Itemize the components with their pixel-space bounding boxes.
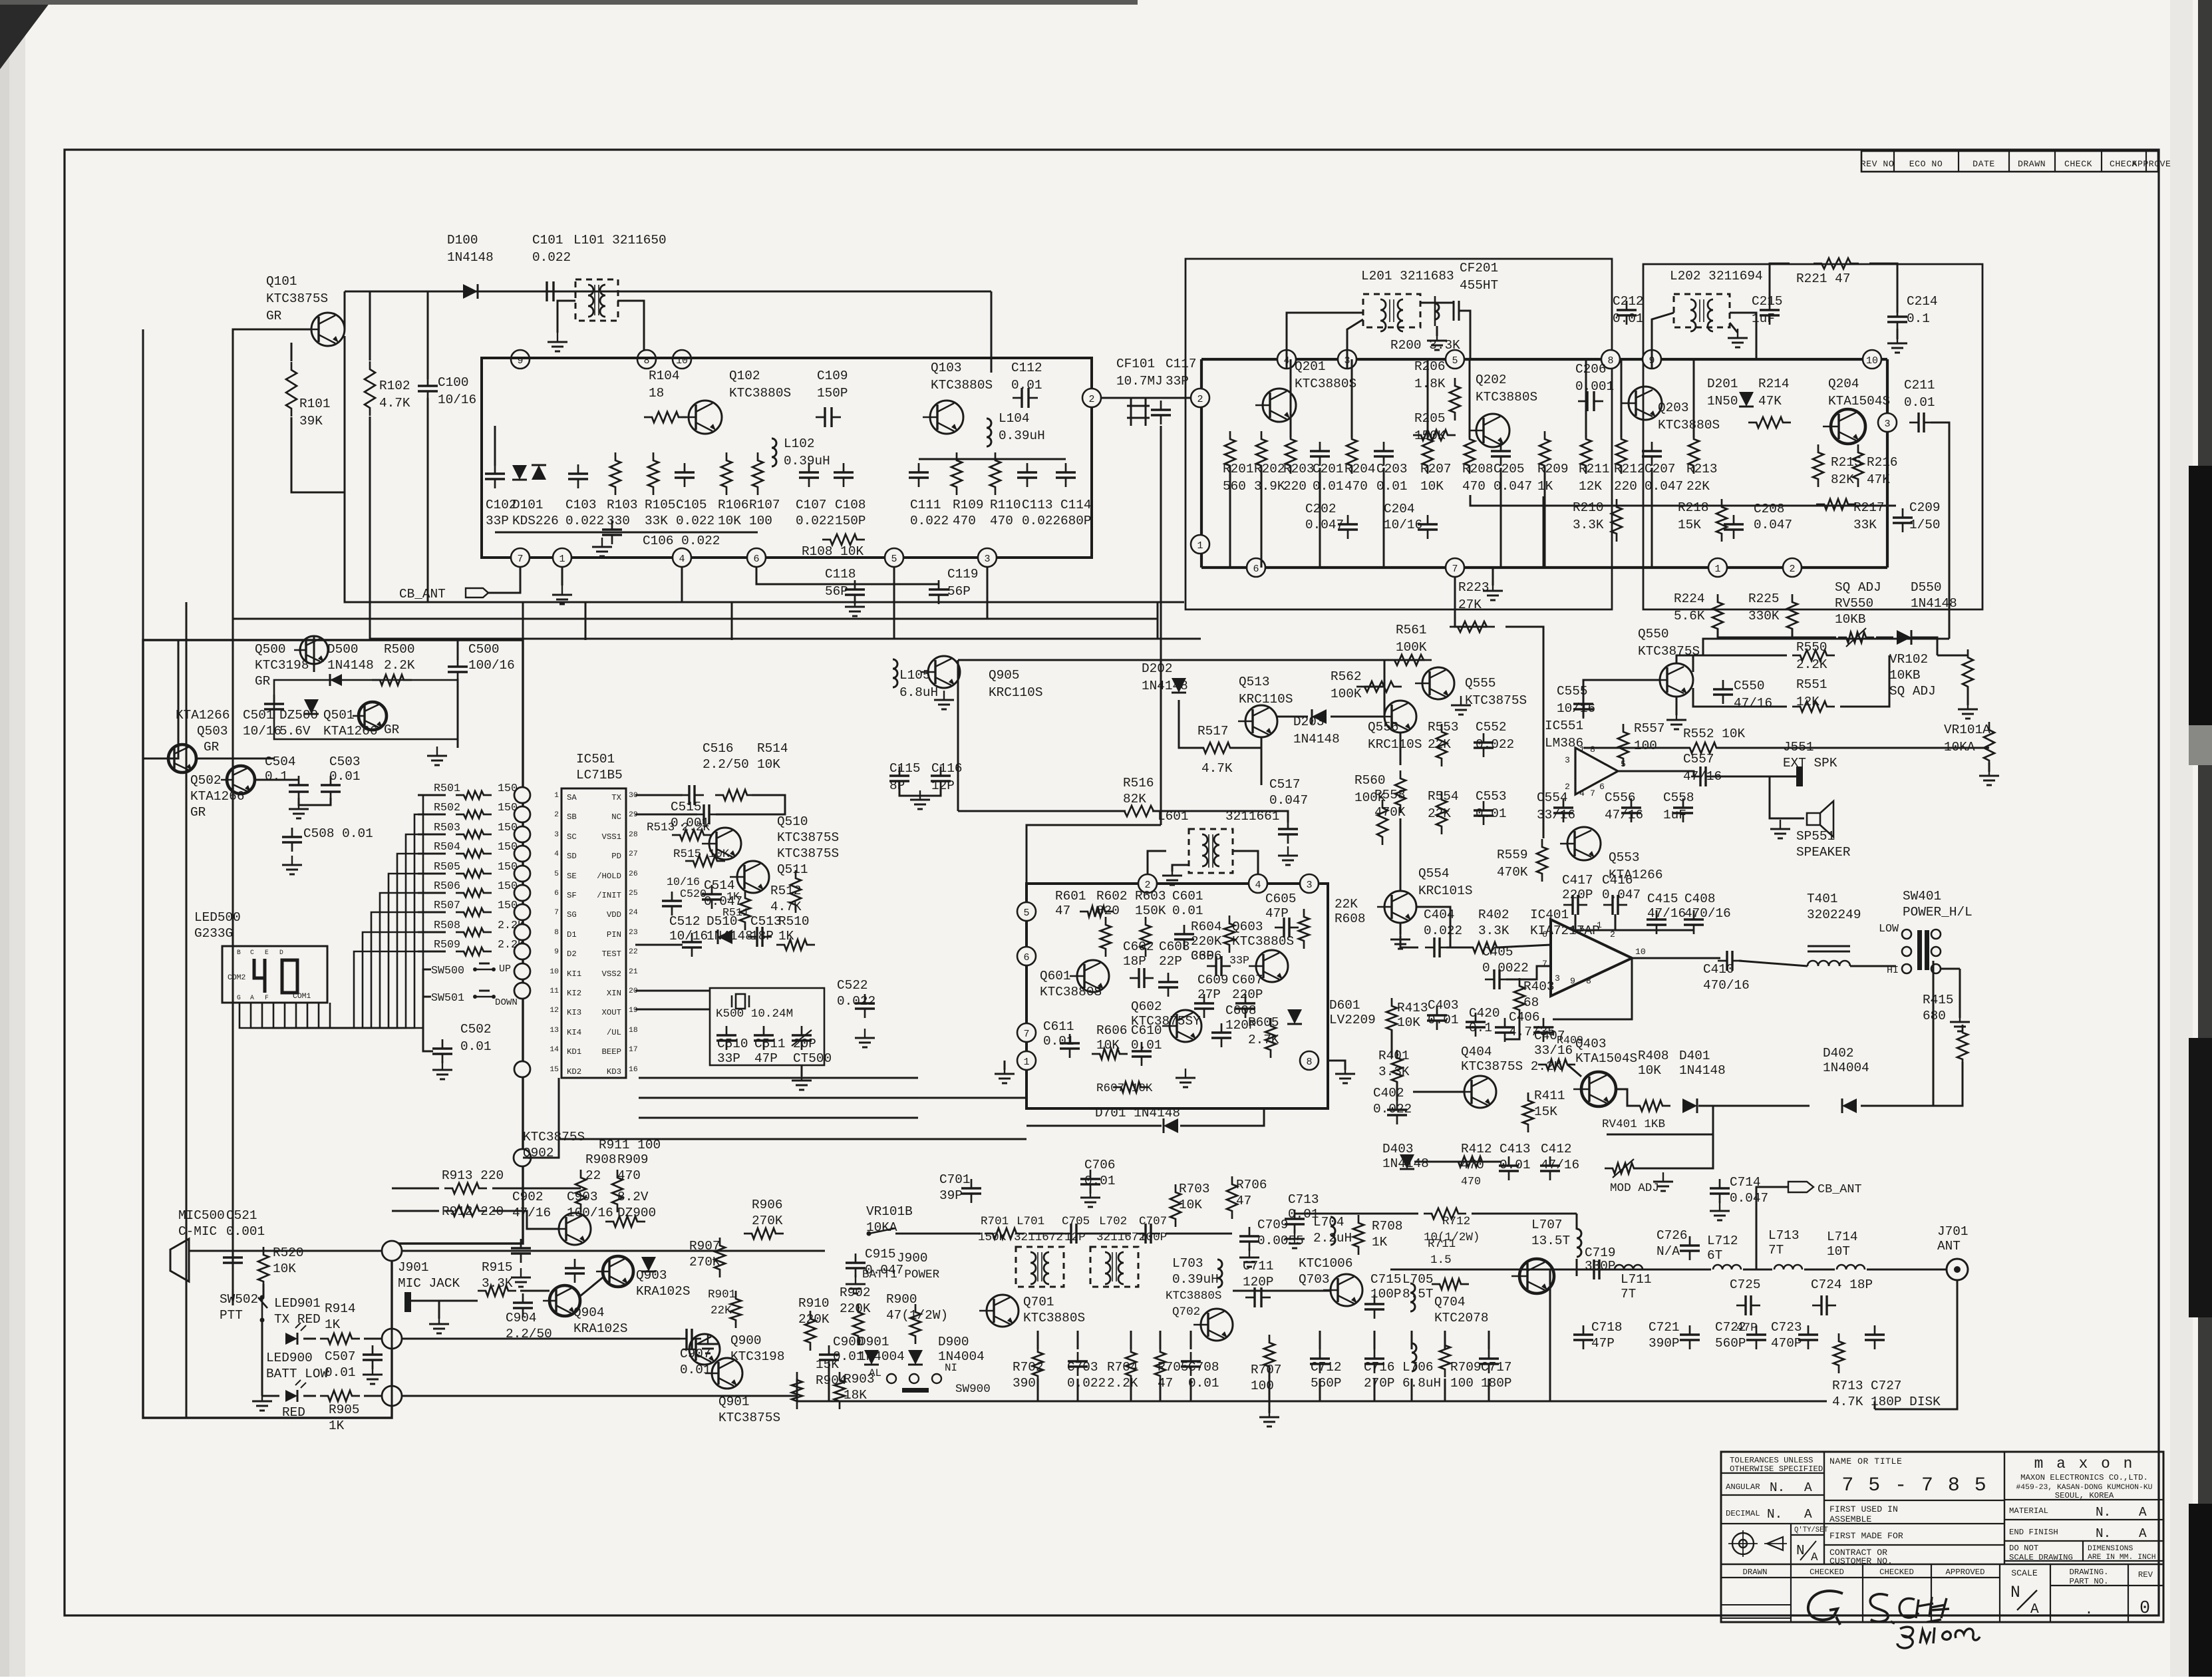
pot VR101A	[1984, 722, 1994, 768]
svg-text:8P: 8P	[889, 778, 905, 793]
svg-text:C556: C556	[1605, 790, 1636, 805]
wire	[189, 1250, 392, 1252]
svg-text:10/16: 10/16	[1384, 518, 1422, 532]
capacitor C554	[1553, 806, 1573, 808]
svg-text:L705: L705	[1402, 1272, 1434, 1287]
resistor R900	[910, 1304, 921, 1344]
svg-text:3: 3	[1306, 880, 1312, 891]
svg-text:4: 4	[1255, 880, 1261, 891]
svg-text:C725: C725	[1730, 1277, 1761, 1292]
svg-text:DZ900: DZ900	[617, 1206, 656, 1220]
svg-text:C-MIC: C-MIC	[178, 1224, 217, 1239]
svg-text:22: 22	[629, 948, 638, 956]
svg-text:4: 4	[1579, 788, 1585, 798]
svg-text:VR101B: VR101B	[866, 1204, 913, 1219]
capacitor C113	[1017, 471, 1037, 473]
ground	[298, 800, 299, 809]
wire	[345, 291, 991, 293]
transistor Q202	[1476, 414, 1509, 447]
svg-text:Q904: Q904	[573, 1305, 605, 1320]
svg-text:Q602: Q602	[1131, 999, 1162, 1014]
svg-text:KRC110S: KRC110S	[989, 685, 1042, 700]
svg-text:6: 6	[1599, 782, 1605, 792]
svg-text:KRC101S: KRC101S	[1418, 884, 1472, 898]
capacitor C726	[1680, 1244, 1700, 1246]
svg-text:SCALE: SCALE	[2011, 1568, 2038, 1578]
svg-text:IC551: IC551	[1545, 719, 1583, 733]
resistor R107	[752, 452, 763, 495]
svg-text:1: 1	[554, 792, 559, 800]
transistor Q901	[712, 1358, 742, 1389]
svg-text:C611: C611	[1043, 1019, 1074, 1034]
svg-text:4.7K: 4.7K	[379, 396, 410, 411]
svg-text:Q511: Q511	[777, 862, 808, 877]
capacitor C706	[1080, 1178, 1100, 1180]
svg-text:C715: C715	[1370, 1272, 1402, 1287]
svg-text:R551: R551	[1796, 677, 1827, 692]
svg-text:Q101: Q101	[266, 274, 297, 289]
svg-text:R516: R516	[1123, 776, 1154, 790]
svg-text:0.022: 0.022	[565, 514, 604, 528]
svg-text:3211661: 3211661	[1225, 809, 1279, 824]
svg-text:KD2: KD2	[567, 1067, 581, 1077]
resistor R214	[1748, 417, 1791, 428]
svg-text:2.2/50: 2.2/50	[703, 757, 749, 772]
svg-text:KDS226: KDS226	[512, 514, 559, 528]
svg-text:MAXON ELECTRONICS CO.,LTD.: MAXON ELECTRONICS CO.,LTD.	[2020, 1473, 2148, 1482]
ground	[601, 538, 603, 547]
svg-text:2.2K: 2.2K	[1107, 1376, 1138, 1391]
svg-text:SQ ADJ: SQ ADJ	[1889, 684, 1936, 699]
svg-text:220: 220	[1283, 479, 1307, 494]
svg-text:0.01: 0.01	[1313, 479, 1344, 494]
node 12	[1783, 558, 1802, 577]
svg-text:A: A	[2030, 1601, 2039, 1617]
svg-text:ANGULAR: ANGULAR	[1726, 1482, 1760, 1492]
svg-text:C118: C118	[825, 567, 856, 582]
svg-text:KTC3875S: KTC3875S	[1465, 693, 1527, 708]
svg-text:455HT: 455HT	[1460, 278, 1498, 293]
thick bus top	[1201, 358, 1887, 361]
svg-text:C557: C557	[1683, 752, 1714, 766]
inductor L102	[772, 438, 776, 466]
svg-text:Q900: Q900	[730, 1333, 762, 1348]
svg-text:KTC3880S: KTC3880S	[1476, 390, 1537, 405]
svg-text:0.01: 0.01	[1172, 904, 1203, 918]
resistor R505	[456, 870, 492, 878]
svg-text:SW502: SW502	[220, 1292, 258, 1307]
svg-text:LOW: LOW	[1879, 923, 1899, 935]
svg-text:27: 27	[629, 850, 638, 858]
svg-text:VR101A: VR101A	[1944, 723, 1990, 737]
capacitor C558	[1673, 806, 1693, 808]
svg-text:0.0055: 0.0055	[1257, 1234, 1304, 1248]
resistor R411	[1523, 1092, 1533, 1132]
svg-text:R206: R206	[1414, 359, 1446, 374]
svg-text:Q203: Q203	[1658, 401, 1689, 415]
svg-text:0.01: 0.01	[325, 1365, 356, 1380]
resistor R601	[1080, 906, 1113, 917]
wire	[1583, 747, 1690, 749]
svg-text:R202: R202	[1254, 462, 1285, 476]
node 4	[1249, 874, 1267, 893]
wire	[392, 1188, 439, 1190]
svg-text:47/16: 47/16	[1541, 1158, 1579, 1172]
svg-text:180P: 180P	[1481, 1376, 1512, 1391]
svg-text:NAME OR TITLE: NAME OR TITLE	[1829, 1456, 1902, 1466]
capacitor C708	[1181, 1360, 1201, 1362]
svg-text:1/50: 1/50	[1909, 518, 1941, 532]
svg-text:R550: R550	[1796, 640, 1827, 655]
svg-text:C109: C109	[817, 369, 848, 383]
diode D201	[1739, 392, 1754, 407]
svg-text:R403: R403	[1523, 979, 1555, 994]
svg-text:VR102: VR102	[1889, 652, 1928, 667]
svg-text:2: 2	[1088, 394, 1094, 405]
inductor L707	[1577, 1229, 1581, 1257]
wire main antenna line	[1550, 1269, 1711, 1271]
resistor R512	[790, 870, 801, 913]
capacitor C416	[1611, 895, 1613, 915]
svg-text:5.6K: 5.6K	[1674, 609, 1705, 623]
svg-text:KTA1266: KTA1266	[323, 724, 377, 739]
svg-text:PART NO.: PART NO.	[2069, 1577, 2108, 1586]
svg-text:VSS2: VSS2	[601, 969, 621, 979]
diode D202	[1172, 678, 1186, 693]
svg-text:N: N	[2010, 1584, 2020, 1602]
svg-text:0.01: 0.01	[329, 769, 361, 784]
svg-text:1uF: 1uF	[1752, 311, 1775, 326]
svg-text:DO NOT: DO NOT	[2009, 1544, 2038, 1553]
svg-text:COM2: COM2	[228, 974, 246, 982]
svg-text:15: 15	[550, 1066, 559, 1074]
inner box top	[274, 680, 458, 739]
svg-text:2.2K: 2.2K	[384, 658, 415, 673]
capacitor C107	[799, 471, 819, 473]
svg-text:100: 100	[1251, 1379, 1274, 1393]
wire	[1027, 825, 1161, 884]
svg-text:TOLERANCES UNLESS: TOLERANCES UNLESS	[1730, 1456, 1813, 1465]
pot VR102	[1963, 649, 1973, 695]
resistor R608	[1299, 909, 1309, 949]
connector CB_ANT	[1788, 1182, 1814, 1192]
svg-text:ASSEMBLE: ASSEMBLE	[1829, 1514, 1871, 1524]
svg-text:R224: R224	[1674, 591, 1705, 606]
transistor Q501	[359, 702, 387, 730]
resistor R105	[648, 452, 659, 495]
svg-text:A: A	[1811, 1551, 1818, 1564]
svg-text:CF201: CF201	[1460, 261, 1498, 275]
svg-text:5: 5	[1452, 355, 1458, 367]
svg-text:PIN: PIN	[607, 930, 621, 939]
svg-text:C111: C111	[910, 498, 941, 512]
transformer L701	[1016, 1247, 1064, 1287]
resistor R217	[1816, 499, 1856, 510]
svg-text:L712: L712	[1707, 1234, 1738, 1248]
svg-text:POWER_H/L: POWER_H/L	[1903, 905, 1973, 920]
ground	[707, 1335, 709, 1344]
svg-text:KI3: KI3	[567, 1008, 581, 1017]
resistor R514	[715, 790, 755, 800]
svg-text:R561: R561	[1396, 623, 1427, 637]
svg-text:100: 100	[1634, 739, 1657, 753]
svg-text:KTC3875S: KTC3875S	[1638, 644, 1700, 659]
svg-text:N.: N.	[1770, 1480, 1785, 1495]
svg-text:10KB: 10KB	[1835, 612, 1866, 627]
svg-text:R504: R504	[434, 841, 460, 854]
svg-text:47(1/2W): 47(1/2W)	[886, 1308, 948, 1323]
capacitor C723	[1798, 1333, 1818, 1335]
svg-text:L102: L102	[784, 436, 815, 451]
svg-text:2: 2	[1197, 394, 1203, 405]
svg-text:R709: R709	[1450, 1360, 1482, 1375]
svg-text:Q510: Q510	[777, 814, 808, 829]
svg-text:10.7MJ: 10.7MJ	[1116, 374, 1163, 389]
svg-text:R914: R914	[325, 1301, 356, 1316]
wire	[291, 343, 293, 361]
svg-text:0: 0	[2139, 1598, 2150, 1618]
node 7	[1446, 558, 1464, 577]
transistor Q502	[227, 766, 255, 794]
svg-text:Q500: Q500	[255, 642, 286, 657]
ground	[1730, 323, 1738, 333]
wire	[1756, 1187, 1788, 1269]
ground	[520, 1268, 522, 1277]
svg-text:.: .	[2085, 1602, 2094, 1618]
svg-text:0.01: 0.01	[1613, 311, 1644, 326]
svg-text:K500 10.24M: K500 10.24M	[716, 1007, 793, 1021]
diode D402	[1842, 1098, 1857, 1113]
resistor R708	[1353, 1215, 1364, 1255]
svg-text:C100: C100	[438, 375, 469, 390]
svg-text:R510: R510	[778, 914, 810, 929]
svg-text:C105: C105	[676, 498, 707, 512]
svg-text:390P: 390P	[1649, 1336, 1680, 1351]
wire IC401 nets	[1446, 947, 1473, 949]
svg-text:R221 47: R221 47	[1796, 271, 1850, 286]
resistor R215	[1813, 444, 1823, 487]
wire	[1941, 968, 1960, 970]
svg-text:10K: 10K	[273, 1261, 296, 1276]
svg-text:12: 12	[550, 1007, 559, 1015]
capacitor C719	[1593, 1260, 1595, 1279]
svg-text:C517: C517	[1269, 777, 1301, 792]
svg-text:D101: D101	[512, 498, 544, 512]
resistor R557	[1618, 724, 1629, 766]
svg-text:R908: R908	[585, 1152, 617, 1167]
ground	[457, 739, 459, 748]
svg-text:DIMENSIONS: DIMENSIONS	[2088, 1545, 2133, 1553]
svg-text:TX RED: TX RED	[274, 1312, 321, 1327]
svg-text:R218: R218	[1678, 500, 1709, 515]
svg-text:R506: R506	[434, 880, 460, 893]
svg-text:KTC3880S: KTC3880S	[1295, 377, 1356, 391]
svg-text:6: 6	[753, 554, 759, 565]
svg-text:Q404: Q404	[1461, 1045, 1492, 1059]
svg-text:12P: 12P	[1064, 1231, 1086, 1244]
resistor R703	[1170, 1184, 1181, 1227]
resistor R221	[1814, 258, 1859, 269]
svg-text:D900: D900	[938, 1335, 969, 1349]
svg-text:470/16: 470/16	[1703, 978, 1750, 993]
wire q513 to pll	[1261, 737, 1263, 785]
svg-text:REV NO: REV NO	[1861, 159, 1894, 169]
svg-text:CUSTOMER NO.: CUSTOMER NO.	[1829, 1556, 1893, 1566]
wire	[1543, 825, 1545, 838]
svg-text:C708: C708	[1188, 1360, 1219, 1375]
svg-text:33P: 33P	[486, 514, 509, 528]
svg-text:560P: 560P	[1311, 1376, 1342, 1391]
svg-text:0.022: 0.022	[1022, 514, 1060, 528]
svg-text:3.3K: 3.3K	[1378, 1065, 1410, 1079]
node 5	[1017, 902, 1036, 921]
capacitor C206	[1586, 391, 1588, 411]
svg-text:22K: 22K	[711, 1304, 732, 1317]
ground	[1400, 924, 1402, 935]
svg-text:CT500: CT500	[793, 1051, 832, 1066]
resistor R109	[951, 452, 962, 495]
svg-text:6: 6	[1253, 564, 1259, 575]
svg-text:C114: C114	[1060, 498, 1092, 512]
svg-text:R502: R502	[434, 802, 460, 814]
wire	[345, 336, 1184, 602]
svg-text:D403: D403	[1382, 1142, 1414, 1156]
svg-text:R608: R608	[1335, 912, 1366, 926]
svg-text:R909: R909	[617, 1152, 649, 1167]
svg-text:18P: 18P	[1123, 954, 1146, 969]
wire	[402, 1395, 797, 1397]
svg-text:APPROVED: APPROVED	[1945, 1568, 1984, 1577]
resistor R212	[1616, 431, 1627, 474]
svg-text:8.2V: 8.2V	[617, 1190, 649, 1204]
svg-text:REV: REV	[2138, 1570, 2153, 1580]
svg-text:R706: R706	[1236, 1178, 1267, 1192]
resistor R206	[1450, 378, 1460, 420]
capacitor C900	[819, 1353, 839, 1355]
svg-text:C416: C416	[1602, 873, 1633, 888]
svg-text:D2: D2	[567, 949, 577, 959]
svg-text:L714: L714	[1827, 1230, 1858, 1244]
svg-text:C722: C722	[1715, 1320, 1746, 1335]
svg-text:Q553: Q553	[1609, 850, 1640, 865]
svg-text:C207: C207	[1645, 462, 1676, 476]
ground	[1328, 1061, 1345, 1070]
inductor L706	[1412, 1343, 1416, 1371]
svg-text:KTA1266: KTA1266	[176, 708, 230, 723]
svg-text:C115: C115	[889, 761, 921, 776]
svg-text:C406: C406	[1509, 1010, 1540, 1025]
speaker SP551	[1807, 801, 1833, 837]
wire	[299, 798, 331, 805]
capacitor C407	[1533, 1026, 1553, 1028]
svg-text:R505: R505	[434, 861, 460, 874]
svg-text:C108: C108	[835, 498, 866, 512]
wire	[391, 1296, 393, 1418]
resistor R208	[1464, 431, 1475, 474]
svg-text:220K: 220K	[840, 1301, 871, 1316]
wire	[1618, 771, 1694, 776]
capacitor C112	[1021, 388, 1023, 408]
node 1	[1017, 1051, 1036, 1070]
svg-text:GR: GR	[255, 674, 271, 689]
resistor R713	[1833, 1333, 1844, 1373]
svg-text:R107: R107	[749, 498, 780, 512]
svg-text:47P: 47P	[1265, 906, 1289, 921]
svg-text:m a x o n: m a x o n	[2034, 1455, 2135, 1472]
capacitor C207	[1642, 450, 1662, 452]
svg-text:0.022: 0.022	[796, 514, 834, 528]
transformer L201	[1363, 294, 1420, 327]
wire	[639, 1097, 1027, 1099]
resistor R216	[1853, 444, 1863, 487]
svg-text:3.3K: 3.3K	[482, 1276, 513, 1291]
wire	[494, 426, 496, 466]
capacitor C508	[282, 836, 302, 838]
svg-text:0.39uH: 0.39uH	[999, 428, 1045, 443]
capacitor C555	[1573, 703, 1593, 705]
svg-text:C410: C410	[1703, 962, 1734, 977]
capacitor C415	[1647, 918, 1666, 920]
svg-text:KTC3875S: KTC3875S	[266, 291, 328, 306]
IF block box 2	[1643, 264, 1982, 609]
capacitor C556	[1621, 806, 1641, 808]
svg-text:28: 28	[629, 831, 638, 839]
svg-text:N.: N.	[1767, 1507, 1782, 1522]
resistor R507	[456, 908, 492, 916]
svg-text:KTC3880S: KTC3880S	[1232, 934, 1294, 949]
svg-text:R704: R704	[1107, 1360, 1138, 1375]
wire	[168, 639, 178, 758]
svg-text:KTC3880S: KTC3880S	[1658, 418, 1720, 432]
svg-text:1: 1	[1714, 564, 1720, 575]
node 1	[1191, 535, 1209, 554]
svg-text:KTC3880S: KTC3880S	[931, 378, 993, 393]
svg-text:J901: J901	[398, 1260, 429, 1275]
svg-text:5: 5	[1621, 759, 1626, 769]
svg-text:C706: C706	[1084, 1158, 1116, 1172]
svg-text:33/16: 33/16	[1537, 808, 1575, 822]
svg-text:C403: C403	[1428, 998, 1459, 1013]
svg-text:Q555: Q555	[1465, 676, 1496, 691]
svg-text:R910: R910	[798, 1296, 830, 1311]
svg-text:0.047: 0.047	[1602, 888, 1641, 902]
IF block box 1	[1185, 259, 1612, 609]
svg-text:0.01: 0.01	[1188, 1376, 1219, 1391]
svg-text:9: 9	[1570, 976, 1575, 986]
ground	[1676, 697, 1678, 715]
ground	[1796, 818, 1804, 820]
svg-text:560: 560	[1223, 479, 1246, 494]
resistor R553	[1436, 724, 1447, 766]
transistor Q555	[1422, 667, 1454, 699]
svg-text:C554: C554	[1537, 790, 1568, 805]
svg-text:R223: R223	[1458, 580, 1490, 595]
capacitor C707	[1144, 1224, 1146, 1244]
capacitor C215	[1760, 309, 1780, 311]
svg-text:C610: C610	[1131, 1023, 1162, 1038]
svg-text:R105: R105	[645, 498, 676, 512]
svg-text:SA: SA	[567, 793, 577, 802]
svg-text:22K: 22K	[1428, 737, 1451, 752]
svg-text:C550: C550	[1734, 679, 1765, 693]
capacitor C503	[321, 784, 341, 786]
transistor Q201	[1263, 389, 1296, 422]
capacitor C117	[1151, 409, 1171, 411]
svg-text:CB_ANT: CB_ANT	[1817, 1182, 1862, 1196]
svg-text:HI: HI	[1887, 965, 1899, 976]
wire	[1770, 263, 1790, 303]
svg-text:SC: SC	[567, 832, 577, 842]
